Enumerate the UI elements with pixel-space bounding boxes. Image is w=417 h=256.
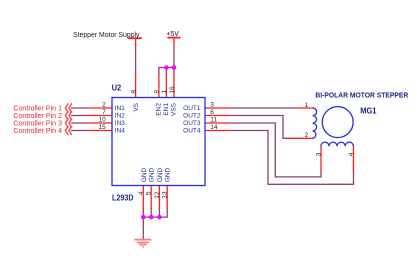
svg-text:13: 13 [162,191,169,199]
svg-text:Controller Pin 1: Controller Pin 1 [13,106,62,113]
svg-text:2: 2 [305,132,309,139]
svg-text:9: 9 [154,90,161,94]
svg-text:4: 4 [348,152,355,156]
svg-text:3: 3 [316,152,323,156]
svg-text:6: 6 [210,109,214,116]
svg-text:OUT4: OUT4 [183,128,201,135]
svg-text:GND: GND [165,167,172,182]
svg-text:8: 8 [130,90,137,94]
svg-text:16: 16 [169,86,176,94]
svg-text:OUT3: OUT3 [183,120,201,127]
svg-text:11: 11 [210,117,217,124]
svg-text:2: 2 [102,102,106,109]
svg-text:MG1: MG1 [360,106,377,116]
svg-text:Stepper Motor Supply: Stepper Motor Supply [73,30,140,39]
svg-text:IN4: IN4 [115,128,126,135]
svg-text:OUT2: OUT2 [183,113,201,120]
svg-text:1: 1 [161,90,168,94]
svg-text:10: 10 [99,117,107,124]
svg-text:3: 3 [210,102,214,109]
svg-text:OUT1: OUT1 [183,105,201,112]
svg-text:GND: GND [157,167,164,182]
svg-text:EN2: EN2 [156,103,163,116]
svg-text:IN1: IN1 [115,105,126,112]
svg-text:BI-POLAR MOTOR STEPPER: BI-POLAR MOTOR STEPPER [315,91,408,100]
svg-text:5: 5 [146,191,153,195]
svg-text:14: 14 [210,124,218,131]
svg-text:7: 7 [102,109,106,116]
svg-text:15: 15 [99,124,107,131]
svg-text:EN1: EN1 [163,103,170,116]
svg-text:Controller Pin 2: Controller Pin 2 [13,113,62,120]
svg-text:U2: U2 [112,84,122,93]
svg-text:VSS: VSS [171,102,178,116]
svg-text:12: 12 [154,191,161,199]
svg-text:L293D: L293D [112,194,134,203]
svg-text:4: 4 [138,191,145,195]
svg-text:IN3: IN3 [115,120,126,127]
svg-text:IN2: IN2 [115,113,126,120]
svg-text:Controller Pin 4: Controller Pin 4 [13,128,62,135]
svg-text:1: 1 [305,102,309,109]
svg-text:Controller Pin 3: Controller Pin 3 [13,121,62,128]
svg-text:GND: GND [149,167,156,182]
svg-text:GND: GND [141,167,148,182]
svg-text:VS: VS [133,102,140,111]
svg-text:+5V: +5V [166,29,180,38]
